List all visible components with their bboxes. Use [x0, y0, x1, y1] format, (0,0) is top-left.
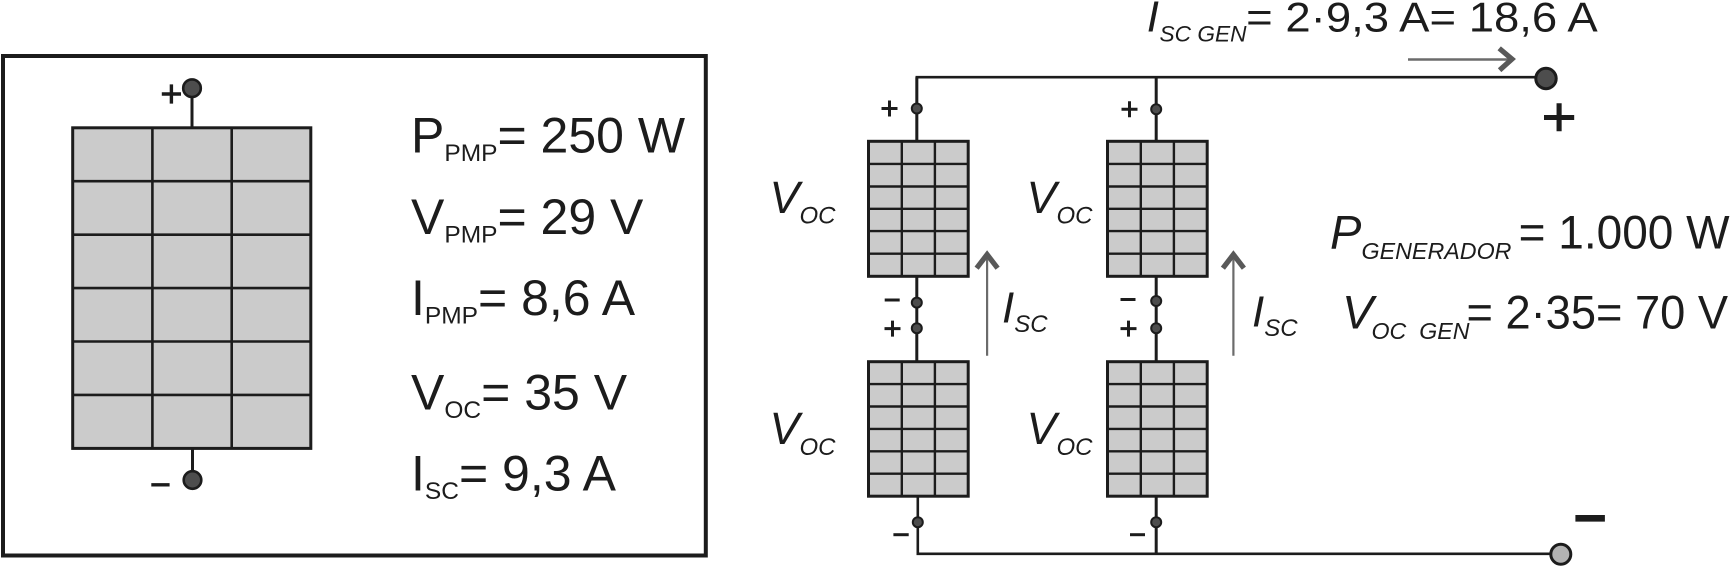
label I_SC_GEN = 2·9,3 A = 18,6 A [1147, 0, 1598, 47]
generator terminal + [1536, 68, 1556, 88]
svg-text:VOC: VOC [770, 403, 837, 461]
label - string2 mid [1121, 298, 1136, 301]
node - string2 mid [1151, 296, 1161, 306]
node + string2 mid [1151, 323, 1161, 333]
PV module M2 (string1 top) [869, 141, 969, 276]
svg-text:= 1.000 W: = 1.000 W [1519, 205, 1731, 258]
label + string2 top [1122, 101, 1138, 117]
svg-text:ISC: ISC [1002, 283, 1048, 338]
wire string2 bottom [1155, 496, 1158, 554]
svg-text:= 2·35= 70 V: = 2·35= 70 V [1467, 286, 1729, 339]
node + string1 top [912, 104, 922, 114]
label + string2 mid [1121, 321, 1137, 337]
svg-text:VOC= 35 V: VOC= 35 V [411, 365, 628, 425]
node - string1 bottom [913, 517, 923, 527]
svg-text:P: P [1330, 205, 1362, 258]
svg-text:ISC: ISC [1252, 288, 1298, 343]
wire M1 positive lead [191, 96, 194, 129]
bottom bus wire [918, 496, 1551, 554]
PV module M4 (string2 top) [1108, 141, 1208, 276]
node + string2 top [1151, 104, 1161, 114]
wire M1 negative lead [191, 448, 194, 472]
label + string1 mid [885, 321, 901, 337]
label - of generator [1575, 515, 1605, 522]
label + string1 top [882, 101, 898, 117]
svg-text:GENERADOR: GENERADOR [1362, 238, 1512, 264]
label P_GENERADOR = 1.000 W [1330, 205, 1730, 263]
PV module M5 (string2 bottom) [1108, 362, 1208, 497]
top bus wire [917, 77, 1535, 141]
node + string1 mid [912, 323, 922, 333]
PV module M3 (string1 bottom) [869, 362, 969, 497]
svg-text:VOC: VOC [1027, 172, 1094, 230]
label + of M1 [162, 84, 181, 103]
node - string2 bottom [1151, 517, 1161, 527]
svg-text:OC GEN: OC GEN [1372, 318, 1470, 344]
svg-text:= 2·9,3 A= 18,6 A: = 2·9,3 A= 18,6 A [1246, 0, 1598, 40]
label - string2 bottom [1130, 533, 1145, 536]
svg-text:SC GEN: SC GEN [1160, 22, 1248, 47]
series wire between M4 and M5 [1155, 276, 1158, 361]
label - string1 mid [885, 299, 900, 302]
label - of M1 [151, 483, 169, 486]
node - string1 mid [912, 298, 922, 308]
terminal + of M1 [183, 79, 201, 97]
svg-text:VOC: VOC [770, 172, 837, 230]
current arrow I_SC string2 [1223, 255, 1244, 356]
PV module M1 [73, 128, 311, 449]
current arrow I_SC string1 [977, 255, 998, 356]
generator terminal - [1551, 544, 1571, 564]
wire string1 top lead [915, 77, 918, 142]
terminal - of M1 [184, 471, 202, 489]
label V_OC_GEN = 2·35 = 70 V [1342, 286, 1729, 345]
label + of generator [1544, 103, 1574, 131]
series wire between M2 and M3 [915, 276, 918, 361]
svg-text:VOC: VOC [1027, 403, 1094, 461]
label - string1 bottom [893, 533, 908, 536]
wire string2 top [1155, 77, 1158, 143]
enclosure box [3, 56, 706, 556]
svg-text:I: I [1147, 0, 1159, 42]
current arrow I_SC_GEN [1408, 48, 1512, 70]
